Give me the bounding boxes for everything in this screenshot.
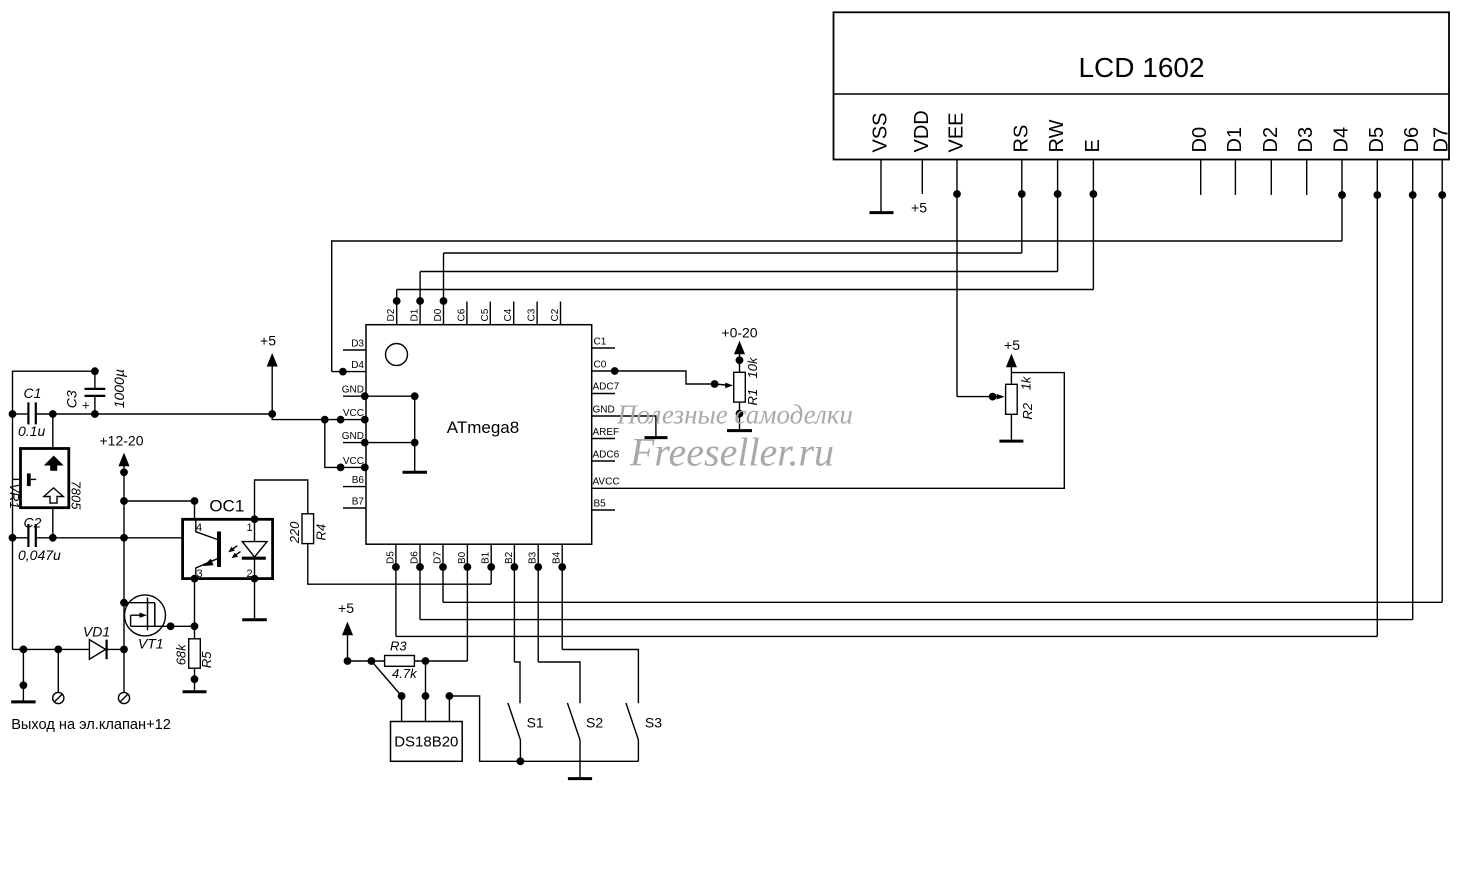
svg-text:4: 4 — [196, 522, 202, 534]
svg-text:LCD 1602: LCD 1602 — [1078, 52, 1204, 83]
transistor inside OC1 — [196, 520, 219, 579]
ground (R2) — [999, 440, 1023, 443]
svg-text:Выход на эл.клапан+12: Выход на эл.клапан+12 — [11, 717, 171, 733]
svg-text:VSS: VSS — [870, 112, 892, 152]
svg-text:C3: C3 — [527, 308, 538, 321]
svg-text:+5: +5 — [1004, 337, 1020, 353]
op IC ATmega8 U1 box — [366, 325, 592, 545]
LCD pin VSS — [880, 160, 882, 212]
svg-text:ADC6: ADC6 — [593, 450, 620, 461]
svg-text:+5: +5 — [260, 333, 276, 349]
wire R3 to MCU B0 — [414, 658, 467, 664]
ground (OC1 pin2) — [242, 579, 267, 620]
LED inside OC1 — [242, 516, 267, 582]
svg-text:R5: R5 — [199, 651, 214, 668]
MCU pin C5 stub — [489, 302, 491, 325]
LCD pin D2 stub — [1270, 160, 1272, 196]
svg-text:D0: D0 — [1189, 127, 1211, 153]
svg-text:68k: 68k — [173, 643, 188, 665]
ground (R5) — [183, 690, 207, 693]
svg-text:C6: C6 — [456, 308, 467, 321]
svg-text:VD1: VD1 — [83, 624, 110, 640]
capacitor C1 0.1u — [13, 402, 273, 424]
LCD pin D5 — [1374, 160, 1380, 637]
svg-text:C1: C1 — [24, 385, 42, 401]
svg-text:DS18B20: DS18B20 — [394, 734, 458, 751]
svg-text:D3: D3 — [351, 339, 364, 350]
LCD pin D1 stub — [1234, 160, 1236, 196]
MCU pin D6 (bottom) — [417, 544, 423, 619]
svg-text:+5: +5 — [338, 600, 354, 616]
svg-text:C2: C2 — [550, 308, 561, 321]
MCU pin C4 stub — [513, 302, 515, 325]
svg-text:0.1u: 0.1u — [18, 423, 45, 439]
svg-text:1: 1 — [247, 522, 253, 534]
svg-text:R4: R4 — [314, 524, 329, 541]
svg-text:AVCC: AVCC — [593, 477, 620, 488]
wire VT1 to R5 — [194, 626, 196, 639]
svg-text:ATmega8: ATmega8 — [447, 418, 519, 437]
ground (S2) — [568, 777, 592, 780]
MCU pin D2 (top) — [394, 290, 400, 325]
svg-text:RW: RW — [1046, 119, 1068, 152]
wire R2 bottom to ground — [1010, 414, 1012, 440]
wire VEE to R2 wiper — [957, 393, 1005, 399]
diode VD1 — [13, 640, 125, 660]
MCU pin B7 stub — [343, 507, 366, 509]
svg-text:VCC: VCC — [343, 456, 364, 467]
svg-text:VT1: VT1 — [138, 635, 164, 651]
svg-text:D4: D4 — [1331, 127, 1353, 153]
ground (bottom left) — [11, 649, 35, 702]
MCU pin B2 (bottom) — [511, 544, 517, 662]
svg-text:C1: C1 — [594, 337, 607, 348]
svg-text:RS: RS — [1010, 125, 1032, 153]
svg-text:VR1: VR1 — [7, 484, 22, 509]
wire E to MCU D2 — [397, 289, 1094, 291]
MCU pin D4 (left) — [332, 368, 366, 374]
MCU pin C0 (right) — [592, 368, 734, 388]
svg-text:D4: D4 — [351, 360, 364, 371]
svg-text:R3: R3 — [390, 639, 407, 654]
terminal output 2 — [118, 649, 129, 703]
svg-text:D2: D2 — [386, 308, 397, 321]
svg-text:GND: GND — [342, 431, 364, 442]
svg-text:B1: B1 — [481, 551, 492, 564]
wire +12 to OC1 pin4 — [124, 498, 198, 520]
svg-text:D6: D6 — [410, 551, 421, 564]
MCU pin B4 (bottom) — [559, 544, 565, 649]
LCD pin D0 stub — [1200, 160, 1202, 196]
svg-text:OC1: OC1 — [209, 497, 244, 516]
wire ground rail left — [9, 368, 98, 649]
node +12-20 arrow — [120, 455, 129, 476]
svg-text:AREF: AREF — [593, 427, 620, 438]
light arrows OC1 — [228, 546, 240, 559]
MCU pin C3 stub — [536, 302, 538, 325]
MCU pin D3 stub (left) — [343, 349, 366, 351]
MCU pin D7 (bottom) — [440, 544, 446, 602]
svg-text:D5: D5 — [385, 551, 396, 564]
ground (MCU internal) — [403, 396, 428, 472]
svg-text:+0-20: +0-20 — [721, 325, 757, 341]
svg-text:D2: D2 — [1260, 127, 1282, 153]
svg-text:Полезные самоделки: Полезные самоделки — [616, 400, 853, 430]
wire R4 to MCU B1 — [308, 544, 491, 585]
svg-text:1000µ: 1000µ — [111, 369, 127, 408]
LCD pin E — [1090, 160, 1096, 290]
wire DS18B20 gnd pin — [446, 693, 638, 765]
svg-text:C0: C0 — [594, 360, 607, 371]
MCU pin ADC6 stub — [592, 460, 615, 462]
wire R5 to ground — [191, 668, 197, 690]
wire OC1 pin1 to R4 — [255, 480, 308, 519]
ground (VSS) — [870, 211, 894, 214]
wire LCD D4 bus to MCU D4 — [332, 241, 1342, 372]
wire +5 node to DS18B20 vcc (diagonal) — [371, 661, 404, 722]
svg-text:S1: S1 — [527, 715, 544, 731]
capacitor C2 0,047u — [13, 524, 183, 547]
switch S3 — [562, 650, 638, 762]
LCD pin RW — [1054, 160, 1060, 272]
svg-text:R2: R2 — [1020, 402, 1035, 419]
svg-text:220: 220 — [287, 521, 302, 544]
svg-text:C5: C5 — [480, 308, 491, 321]
svg-text:7805: 7805 — [69, 481, 84, 511]
MCU pin D1 (top) — [417, 272, 423, 325]
LCD pin RS — [1019, 160, 1025, 254]
svg-text:S2: S2 — [586, 715, 603, 731]
svg-text:VDD: VDD — [911, 110, 933, 152]
MCU pin C6 stub — [466, 302, 468, 325]
svg-text:+12-20: +12-20 — [100, 432, 144, 448]
svg-text:+5: +5 — [911, 200, 927, 216]
svg-text:2: 2 — [247, 568, 253, 580]
wire R1 bottom to ground — [736, 402, 742, 429]
svg-text:VCC: VCC — [343, 408, 364, 419]
MCU pin D0 (top) — [440, 253, 446, 325]
MCU pin ADC7 stub — [592, 393, 615, 395]
svg-text:B6: B6 — [352, 475, 365, 486]
svg-text:D7: D7 — [1431, 127, 1453, 153]
svg-text:D5: D5 — [1366, 127, 1388, 153]
MCU pin C2 stub — [560, 302, 562, 325]
MCU pin GND2 (left) — [343, 439, 418, 445]
svg-text:D0: D0 — [433, 308, 444, 321]
optocoupler OC1 box — [183, 519, 273, 578]
svg-text:D7: D7 — [433, 551, 444, 564]
LCD1602 module box — [834, 12, 1450, 159]
sensor DS18B20 box — [391, 722, 463, 762]
svg-text:S3: S3 — [645, 715, 662, 731]
svg-text:0,047u: 0,047u — [18, 547, 61, 563]
MCU pin GND (right) — [592, 416, 656, 436]
svg-text:10k: 10k — [745, 356, 760, 378]
LCD pin D7 — [1439, 160, 1445, 603]
svg-text:B4: B4 — [552, 551, 563, 564]
LCD pin D6 — [1410, 160, 1416, 620]
node +5 arrow near MCU — [268, 355, 277, 417]
wire +5 to VCC pins — [272, 414, 368, 471]
node +5 arrow above R3 — [343, 624, 352, 665]
MCU pin GND1 (left) — [343, 393, 418, 399]
svg-text:4.7k: 4.7k — [392, 666, 418, 681]
wire RS to MCU D0 — [444, 252, 1022, 254]
MCU pin B0 (bottom) — [464, 544, 470, 661]
svg-text:D3: D3 — [1295, 127, 1317, 153]
resistor R3 4.7k — [385, 656, 415, 667]
wire R3 node to DS18B20 data — [422, 661, 428, 722]
svg-text:3: 3 — [197, 568, 203, 580]
ground (R1) — [727, 429, 752, 432]
MCU pin B6 stub — [343, 486, 366, 488]
MCU pin AREF stub — [592, 438, 615, 440]
resistor R5 68k — [189, 639, 201, 668]
terminal output 1 — [53, 649, 64, 703]
node +0-20 arrow above R1 — [735, 343, 744, 373]
svg-text:B0: B0 — [457, 551, 468, 564]
potentiometer R2 1k — [1006, 384, 1018, 414]
wire LCD D6 bus to MCU D6 — [420, 619, 1413, 621]
svg-text:E: E — [1082, 139, 1104, 152]
switch S2 — [538, 662, 580, 777]
svg-text:C3: C3 — [63, 390, 79, 408]
ground (MCU right) — [645, 436, 668, 439]
potentiometer R1 10k — [734, 372, 746, 402]
svg-text:D1: D1 — [1224, 127, 1246, 153]
resistor R4 220 — [302, 514, 314, 544]
wire +5 to R3 — [348, 658, 385, 664]
wire +12 rail — [121, 472, 127, 652]
LCD pin VDD — [921, 160, 923, 195]
MCU pin B3 (bottom) — [535, 544, 541, 662]
svg-text:D6: D6 — [1401, 127, 1423, 153]
LCD pin VEE — [954, 160, 960, 397]
svg-text:C4: C4 — [503, 308, 514, 321]
regulator VR1 7805 — [13, 414, 69, 538]
LCD pin D3 stub — [1306, 160, 1308, 196]
svg-text:D1: D1 — [410, 308, 421, 321]
wire RW to MCU D1 — [420, 271, 1058, 273]
svg-text:C2: C2 — [24, 514, 42, 530]
svg-text:B3: B3 — [528, 551, 539, 564]
LCD pin D4 — [1339, 160, 1345, 242]
wire LCD D7 bus to MCU D7 — [443, 601, 1442, 603]
MCU pin C1 stub (right) — [592, 347, 615, 349]
svg-text:ADC7: ADC7 — [593, 382, 620, 393]
svg-text:B7: B7 — [352, 497, 365, 508]
wire LCD D5 bus to MCU D5 — [396, 635, 1377, 637]
wire OC1 pin3 to VT1 — [191, 575, 197, 626]
svg-text:1k: 1k — [1019, 375, 1034, 390]
MCU pin B5 stub — [592, 509, 615, 511]
MCU pin B1 (bottom) — [488, 544, 494, 584]
svg-text:B5: B5 — [594, 499, 607, 510]
svg-text:B2: B2 — [504, 551, 515, 564]
transistor VT1 MOSFET — [124, 595, 198, 636]
MCU pin D5 (bottom) — [393, 544, 399, 636]
svg-text:GND: GND — [342, 385, 364, 396]
node +5 arrow above R2 — [1007, 356, 1016, 385]
MCU pin AVCC wire to R2 top — [592, 373, 1065, 489]
svg-text:GND: GND — [593, 405, 615, 416]
svg-text:Freeseller.ru: Freeseller.ru — [629, 430, 834, 475]
svg-text:+: + — [82, 398, 90, 413]
switch S1 — [508, 662, 521, 761]
capacitor C3 1000u — [85, 371, 106, 414]
svg-text:VEE: VEE — [946, 112, 968, 152]
